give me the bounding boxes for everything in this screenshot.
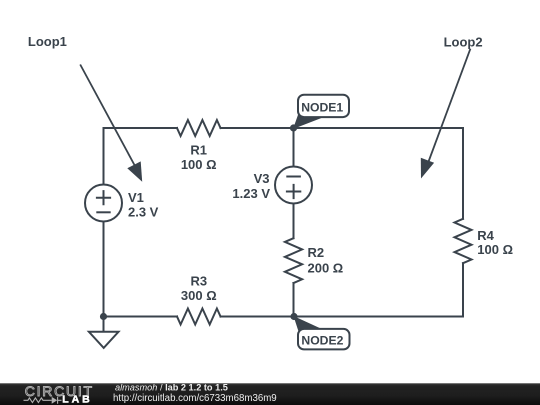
wire top segment R1 to NODE1	[221, 127, 294, 129]
Loop1 arrowhead	[127, 161, 142, 181]
resistor R1	[177, 120, 221, 136]
resistor R3	[177, 309, 221, 325]
V3 minus sign	[287, 176, 300, 178]
Loop1 arrow line	[80, 65, 135, 167]
svg-text:R1: R1	[190, 142, 207, 157]
wire top-left vertical	[103, 128, 105, 185]
svg-text:R4: R4	[477, 228, 494, 243]
svg-text:http://circuitlab.com/c6733m68: http://circuitlab.com/c6733m68m36m9	[113, 393, 277, 404]
svg-text:R2: R2	[308, 245, 325, 260]
ground symbol	[89, 332, 119, 348]
wire bottom segment right of R3	[221, 316, 464, 318]
svg-text:V3: V3	[254, 171, 270, 186]
svg-text:LAB: LAB	[62, 394, 92, 405]
logo wire with resistor squiggle	[24, 398, 52, 403]
footer bar	[0, 383, 540, 405]
svg-text:almasmoh / lab 2 1.2 to 1.5: almasmoh / lab 2 1.2 to 1.5	[115, 383, 228, 393]
node junction dot ground	[100, 313, 107, 320]
Loop2 arrowhead	[421, 158, 434, 179]
svg-text:100 Ω: 100 Ω	[181, 157, 217, 172]
svg-text:Loop1: Loop1	[28, 34, 67, 49]
V1 plus sign	[97, 191, 110, 204]
logo diode symbol	[52, 397, 58, 404]
svg-text:Loop2: Loop2	[444, 35, 483, 50]
svg-text:100 Ω: 100 Ω	[477, 242, 513, 257]
svg-text:V1: V1	[128, 190, 144, 205]
wire left vertical lower (V1 to bottom)	[103, 222, 105, 317]
NODE2 callout box	[298, 329, 350, 350]
wire right vertical upper	[462, 128, 464, 219]
svg-text:NODE2: NODE2	[301, 334, 343, 348]
wire top segment NODE1 to right corner	[294, 127, 464, 129]
wire R2 to NODE2	[293, 283, 295, 317]
svg-text:2.3 V: 2.3 V	[128, 205, 159, 220]
NODE2 callout pointer	[294, 316, 325, 333]
V3 plus sign	[287, 185, 300, 198]
voltage source V1	[85, 185, 122, 222]
V1 minus sign	[97, 211, 109, 213]
wire right vertical lower	[462, 263, 464, 316]
resistor R4	[455, 219, 472, 263]
wire bottom segment left of R3	[104, 316, 178, 318]
Loop2 arrow line	[428, 49, 470, 163]
NODE1 callout box	[298, 95, 349, 117]
ground stem	[103, 317, 105, 332]
node junction dot NODE1	[290, 124, 297, 131]
svg-text:300 Ω: 300 Ω	[181, 288, 217, 303]
wire top segment left of R1	[104, 127, 178, 129]
NODE1 callout pointer	[293, 112, 324, 129]
wire V3 to R2	[293, 204, 295, 239]
resistor R2	[285, 238, 302, 283]
svg-text:1.23 V: 1.23 V	[232, 186, 270, 201]
wire NODE1 to V3	[293, 128, 295, 167]
svg-text:NODE1: NODE1	[301, 100, 343, 114]
svg-text:200 Ω: 200 Ω	[308, 261, 344, 276]
voltage source V3	[275, 167, 312, 204]
node junction dot NODE2	[290, 313, 297, 320]
svg-text:R3: R3	[190, 274, 207, 289]
